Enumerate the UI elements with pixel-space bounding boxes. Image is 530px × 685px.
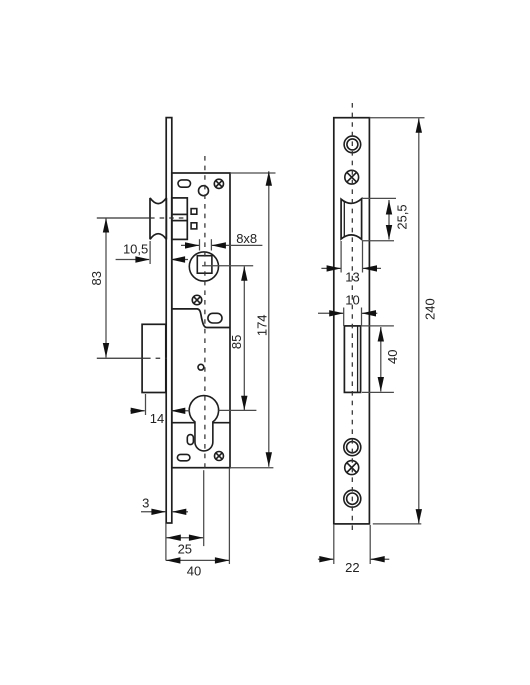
texts left view [89,231,270,579]
deadbolt side [142,324,166,392]
dim 174 [268,171,270,467]
slot oval bottom-left [177,454,190,460]
svg-text:14: 14 [150,411,164,426]
arrows dim 13 [327,265,342,271]
arrows dim 40 bolt cutout [378,327,384,342]
screw cross bottom [215,452,224,461]
dim 8x8 [181,244,199,246]
dim 22 [318,558,334,560]
dim 40 bottom [166,559,230,561]
svg-text:240: 240 [423,298,438,320]
svg-text:40: 40 [187,564,201,579]
arrows dim 10,5 [135,256,150,262]
svg-text:25,5: 25,5 [395,204,410,229]
svg-text:22: 22 [345,560,359,575]
spindle square 8x8 [197,256,212,274]
countersunk screw lower-2 [344,490,361,507]
countersunk screw lower-1 [344,439,361,456]
dim 40 right [380,327,382,392]
svg-text:13: 13 [345,270,359,285]
dim 85 [243,266,245,410]
arrows dim 40 case [166,557,181,563]
texts right view [345,204,438,575]
svg-text:83: 83 [89,271,104,285]
slot oval mid-right [208,313,222,323]
latch follower block [172,198,188,240]
arrows dim 10 [329,310,344,316]
countersunk screw top [344,136,361,153]
follower pin circle [199,186,209,196]
centerline right view [351,103,353,534]
slot oval top-left [178,180,191,187]
svg-text:40: 40 [385,350,400,364]
svg-text:8x8: 8x8 [236,231,257,246]
euro cylinder hole [189,396,218,451]
arrows dim 83 [103,218,109,233]
dim 10,5 [116,259,149,261]
arrows dim 240 [416,118,422,133]
faceplate front [334,118,370,524]
svg-text:25: 25 [178,541,192,556]
svg-text:85: 85 [229,335,244,349]
faceplate side [166,118,172,523]
arrows dim 14 [131,408,146,414]
roller latch side [150,198,166,240]
arrows dim 25 [166,535,181,541]
internal step line [172,309,230,328]
arrows dim 25,5 [386,200,392,215]
spindle hub circle [189,252,218,281]
arrows dim 22 [319,556,334,562]
small square E [191,223,197,229]
centerlines left view [97,156,205,468]
arrows dim 8x8 [185,242,200,248]
dim 240 [418,118,420,523]
screw cross middle [192,295,202,305]
svg-text:10,5: 10,5 [123,242,148,257]
dim 25,5 [388,200,390,240]
roller front [341,199,362,240]
arrows dim 174 [266,171,272,186]
dim 14 [130,410,144,412]
cylinder mount line [172,422,195,424]
small pin circle [198,364,204,370]
slot oval vertical [187,435,193,445]
arrows dim 3 [151,509,166,515]
svg-text:174: 174 [255,314,270,336]
dim 13 [321,267,340,269]
arrows dim 85 [241,266,247,281]
dim 3 [141,511,166,513]
dim 83 [105,218,107,358]
small square D [191,209,197,215]
lock case [172,173,230,468]
dim 25 [166,537,203,539]
bolt cutout front [344,326,360,393]
svg-text:3: 3 [142,496,149,511]
screw cross upper [345,170,359,184]
screw cross lower [345,461,359,475]
screw cross top-right [214,179,223,188]
dim 10 [318,312,343,314]
svg-text:10: 10 [345,292,359,307]
